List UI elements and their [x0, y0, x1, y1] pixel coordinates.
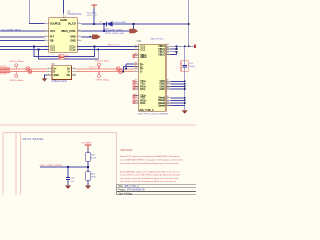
svg-text:7: 7	[79, 35, 80, 37]
red pin numbers left	[135, 52, 138, 103]
zone border vbus sense top	[3, 131, 116, 133]
svg-text:6: 6	[74, 67, 75, 69]
svg-text:VBUS: VBUS	[158, 53, 165, 56]
ground arrow R61	[85, 186, 91, 189]
node sense/R60	[87, 166, 89, 168]
node CC1 branch left	[33, 46, 35, 48]
ground arrow U6	[42, 78, 48, 81]
wire GATE up	[63, 0, 65, 14]
svg-text:USB_C VBUS_SENSE: USB_C VBUS_SENSE	[40, 165, 63, 167]
svg-text:GND: GND	[159, 88, 165, 91]
no-connect X marks SBU/TX/RX	[133, 54, 135, 104]
svg-text:RX2-: RX2-	[140, 102, 146, 105]
svg-text:A3: A3	[135, 81, 137, 84]
power symbol 5V right	[194, 45, 196, 48]
resistor R60	[86, 153, 97, 161]
svg-text:2: 2	[48, 74, 49, 76]
svg-text:DNP For Midas: DNP For Midas	[96, 79, 110, 81]
node cap branch	[67, 166, 69, 168]
U5 pin stubs	[44, 14, 81, 50]
svg-text:CN1: CN1	[137, 41, 142, 43]
wire D- red right	[76, 71, 134, 73]
node drop to port arrow	[133, 23, 135, 25]
wire D- pair join	[122, 66, 124, 71]
svg-text:VBUS_CTRL: VBUS_CTRL	[61, 30, 76, 33]
op-amp U5 TCPP01-M12 body	[49, 18, 78, 53]
crossed circle pair right	[116, 67, 122, 74]
U5 pin numbers	[45, 16, 80, 50]
wire VBUS_CTRL to port	[81, 30, 129, 32]
node VBUS top wire	[188, 23, 190, 25]
svg-text:USB-TYPE-C-31-M-12-RA-SMT: USB-TYPE-C-31-M-12-RA-SMT	[137, 113, 169, 116]
svg-text:Project: STM32WB5M-DK: Project: STM32WB5M-DK	[118, 189, 145, 192]
wire CC2 bypass	[39, 49, 99, 58]
wire D+ upper stub	[126, 63, 134, 65]
svg-text:B4: B4	[167, 50, 169, 52]
svg-text:SchDio240A: SchDio240A	[113, 21, 126, 24]
wire VBUS up vertical	[188, 0, 190, 46]
transistor U6 USBLC6-2SC6 body	[52, 66, 72, 80]
svg-text:DNP For Midas: DNP For Midas	[96, 61, 110, 63]
DNP resistor R70 on D- line	[0, 71, 10, 76]
CN1 left pin stubs	[134, 47, 139, 103]
svg-text:be sure ARDUINO SHIELD is plug: be sure ARDUINO SHIELD is plugged. UCPD …	[120, 159, 184, 162]
ground arrow cap	[65, 186, 71, 189]
svg-text:VBUS_SRC: VBUS_SRC	[87, 15, 98, 17]
svg-text:B7: B7	[135, 70, 137, 72]
svg-text:B5: B5	[135, 48, 137, 50]
wire CC2	[0, 48, 49, 50]
svg-text:13: 13	[64, 16, 66, 18]
capacitor C51	[66, 177, 75, 183]
wire VCC left with label	[0, 30, 44, 32]
svg-text:Size: A4 Date:: Size: A4 Date:	[118, 192, 133, 195]
svg-text:5V_SENS: 5V_SENS	[82, 143, 92, 145]
wire CC1c to connector	[77, 46, 139, 48]
svg-text:FLT: FLT	[50, 36, 55, 39]
wire FLT left	[0, 36, 44, 38]
svg-text:5V_UCPD_MCU: 5V_UCPD_MCU	[2, 28, 21, 32]
svg-text:A4: A4	[167, 43, 169, 46]
svg-text:B6: B6	[135, 67, 137, 69]
ground arrow connector	[182, 110, 188, 113]
svg-text:100nF: 100nF	[189, 66, 196, 68]
test circle bottom left	[15, 72, 18, 78]
connector CN1 USB_TYPE_C body	[139, 44, 166, 111]
svg-text:Shield: Shield	[158, 104, 165, 107]
wire 5V horizontal	[81, 23, 105, 25]
svg-text:169K: 169K	[91, 177, 96, 179]
svg-text:1: 1	[48, 67, 49, 69]
node VBUS joins	[176, 45, 178, 47]
svg-text:CC2: CC2	[50, 48, 56, 51]
svg-text:VBUS SENSE: VBUS SENSE	[22, 137, 43, 141]
svg-text:R70 0R: R70 0R	[0, 74, 7, 76]
node FLT	[89, 36, 91, 38]
wire R60 down	[87, 161, 89, 172]
node VBUS bottom	[188, 45, 190, 47]
svg-text:USB_CC1_P: USB_CC1_P	[107, 45, 120, 47]
node D+ join	[125, 68, 127, 70]
wire CC1 bypass	[34, 47, 95, 57]
solder bridge SB1	[59, 55, 69, 58]
wire R61 to gnd	[87, 180, 89, 185]
svg-text:LIMITATION: LIMITATION	[120, 149, 133, 152]
svg-text:GND: GND	[70, 40, 76, 43]
svg-text:GATE: GATE	[60, 19, 67, 22]
svg-text:VCC: VCC	[50, 30, 55, 33]
svg-text:40.2K: 40.2K	[91, 158, 97, 160]
svg-text:B10: B10	[135, 87, 138, 89]
zone border left vertical	[2, 132, 4, 195]
wire CC2c to connector	[77, 48, 139, 50]
DNP resistor R69 on D+ line	[0, 66, 10, 70]
node power/wire	[93, 23, 95, 25]
svg-text:B8: B8	[135, 55, 137, 57]
CN1 right pin stubs	[166, 46, 171, 105]
svg-text:S4: S4	[167, 104, 169, 106]
svg-text:A9: A9	[167, 46, 169, 49]
svg-text:8: 8	[45, 35, 46, 37]
svg-text:Title: USB_TYPE_C: Title: USB_TYPE_C	[118, 185, 139, 188]
svg-text:6: 6	[45, 39, 46, 41]
title block	[117, 184, 196, 195]
svg-text:B3: B3	[135, 96, 137, 98]
test circle top left	[15, 64, 18, 69]
capacitor C54 DNP box	[181, 61, 196, 72]
U6 pin numbers	[48, 67, 75, 75]
svg-text:One need to check that multipl: One need to check that multiplexed signa…	[120, 180, 177, 183]
svg-text:One need to check that multipl: One need to check that multiplexed signa…	[120, 162, 179, 165]
svg-text:B9: B9	[167, 52, 169, 54]
svg-text:One need to check that multipl: One need to check that multiplexed signa…	[120, 177, 179, 180]
test circle right top	[98, 63, 101, 69]
solder bridge SB2	[59, 58, 69, 61]
wire FLT to port	[81, 36, 92, 38]
svg-text:10: 10	[79, 30, 81, 32]
svg-text:4: 4	[74, 70, 75, 72]
svg-text:A12: A12	[167, 81, 170, 84]
svg-text:CC2: CC2	[140, 48, 145, 51]
node diode wire drop	[103, 23, 105, 25]
svg-text:5V_UCPD_VSYS: 5V_UCPD_VSYS	[105, 29, 123, 31]
svg-text:RX1-: RX1-	[140, 88, 146, 91]
wire CC1	[0, 46, 49, 48]
wire D- upper stub	[123, 65, 134, 67]
svg-text:5: 5	[74, 74, 75, 76]
svg-text:B12: B12	[167, 87, 170, 89]
node CC2 branch right	[97, 49, 99, 51]
svg-text:5V_USBC: 5V_USBC	[87, 12, 97, 14]
svg-text:A10: A10	[135, 100, 138, 103]
wire U6 GND	[45, 75, 48, 79]
U6 pin stubs	[47, 69, 76, 75]
wire cap/gnd vertical	[184, 46, 186, 65]
svg-text:TCPP01-M12: TCPP01-M12	[67, 14, 82, 16]
wire drop to VBUS_CTRL	[103, 24, 105, 31]
wire GND bus joins	[171, 81, 185, 105]
svg-text:9: 9	[79, 39, 80, 41]
svg-text:Some ARDUINO signals are multi: Some ARDUINO signals are multiplexed wit…	[120, 170, 181, 173]
svg-text:D-: D-	[140, 71, 143, 74]
svg-text:GND: GND	[70, 36, 76, 39]
node on VBUS_CTRL wire	[103, 30, 105, 32]
zone border vbus sense left	[20, 132, 22, 195]
svg-text:USBC_CC1_P: USBC_CC1_P	[89, 67, 102, 69]
wire D+ red right	[76, 68, 134, 70]
power flag 5V_USBC	[87, 4, 99, 24]
svg-text:NC: NC	[67, 74, 71, 77]
svg-text:IN_GD: IN_GD	[68, 23, 76, 26]
wire cap to gnd	[67, 180, 69, 186]
crossed circle pair left	[26, 67, 32, 74]
svg-text:SB15: SB15	[64, 56, 68, 58]
svg-text:DNP For Midas: DNP For Midas	[10, 61, 24, 63]
svg-text:GND: GND	[53, 74, 59, 77]
node CC2 branch left	[38, 49, 40, 51]
zone border empty box right	[15, 132, 17, 195]
svg-text:SB16: SB16	[64, 58, 68, 60]
wire cap drop	[67, 167, 69, 177]
svg-text:DNP For Midas: DNP For Midas	[10, 80, 24, 82]
grey pin numbers CC/VBUS	[135, 43, 170, 105]
svg-text:In case JP58 is used, USB TYPE: In case JP58 is used, USB TYPE-C should …	[120, 174, 181, 177]
LIMITATION note	[120, 149, 184, 183]
wire D+ pair join	[125, 64, 127, 69]
svg-text:USBLC6-2SC6: USBLC6-2SC6	[52, 81, 68, 83]
svg-text:3: 3	[45, 22, 46, 24]
wire sense horizontal	[40, 166, 88, 168]
svg-text:3: 3	[48, 70, 49, 72]
resistor R61	[86, 172, 97, 180]
svg-text:1: 1	[45, 30, 46, 32]
svg-text:SBU2: SBU2	[140, 56, 147, 59]
wire DB left	[0, 40, 44, 42]
svg-text:UCPD_VBUS_SNS: UCPD_VBUS_SNS	[105, 33, 125, 35]
svg-text:DB: DB	[50, 40, 54, 43]
wire D- red left	[0, 71, 47, 73]
zone border vbus sense right	[115, 132, 117, 195]
wire VBUS bus	[171, 46, 194, 54]
svg-text:Some UCPD signals are multiple: Some UCPD signals are multiplexed with A…	[120, 155, 180, 158]
port arrow VBUS right	[129, 29, 138, 34]
svg-text:A5: A5	[135, 44, 137, 47]
test circle right bottom	[98, 72, 101, 78]
node D- join	[122, 71, 124, 73]
node CC1 branch right	[94, 46, 96, 48]
svg-text:CC2c: CC2c	[69, 48, 76, 51]
svg-text:USB_TYPE_C: USB_TYPE_C	[150, 39, 165, 41]
power flag 5V_SENS	[82, 143, 92, 153]
svg-text:SOURCE: SOURCE	[50, 23, 61, 26]
svg-text:USB_TYPE_C: USB_TYPE_C	[139, 110, 154, 112]
wire drop to port	[132, 24, 134, 31]
svg-text:S2: S2	[167, 99, 169, 101]
port arrow FLT	[92, 35, 101, 40]
wire D+ red left	[0, 68, 47, 70]
svg-text:R69 0R: R69 0R	[0, 66, 7, 68]
zone border horizontal full	[0, 124, 196, 126]
svg-text:12: 12	[79, 22, 81, 24]
wire SOURCE from top	[29, 0, 44, 24]
diode D5	[100, 21, 127, 33]
